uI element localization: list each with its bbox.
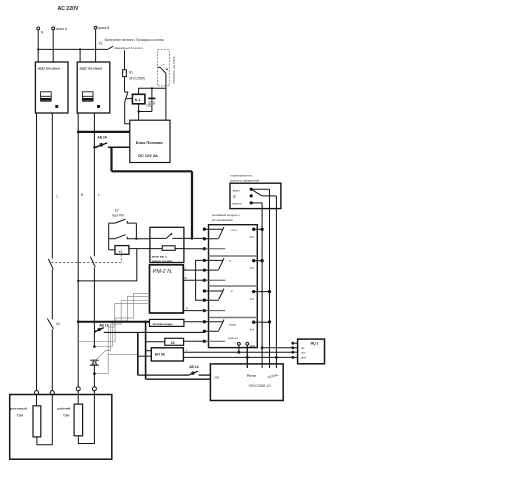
wire K2 right lead to ch4 bot <box>184 340 205 342</box>
svg-text:РМ-2 N.: РМ-2 N. <box>153 269 173 275</box>
svg-text:ТЭН: ТЭН <box>63 413 70 417</box>
heater разгонный ТЭН <box>33 406 41 437</box>
wire K-1 bottom to PSU top <box>139 104 152 120</box>
wire heater1 bottom loop <box>37 395 52 445</box>
svg-text:разгон: разгон <box>228 336 238 340</box>
wire фаза А drop <box>52 30 54 62</box>
svg-text:Аварийный блок вкл.: Аварийный блок вкл. <box>114 46 143 50</box>
module power terminal gnd <box>246 342 255 368</box>
relay coil K1 <box>115 246 129 255</box>
manual mode switch box <box>230 183 281 208</box>
divider ch1/ch2 <box>209 255 258 257</box>
wire V-N x=145.6 <box>145 322 147 380</box>
wire БП5в in1 <box>146 350 152 352</box>
svg-text:ТЭН: ТЭН <box>17 413 24 417</box>
svg-text:S1: S1 <box>99 42 103 46</box>
wire heater2 top <box>77 391 79 404</box>
pin В РМ-2 <box>183 276 204 280</box>
wire S2 right drop <box>135 223 137 239</box>
wire K1 coil left lead <box>109 249 115 251</box>
channel2 contact б <box>203 258 256 282</box>
water valve box клапан воды <box>150 319 184 326</box>
wire K2 left lead <box>146 341 165 343</box>
arrow on N line <box>123 131 127 134</box>
svg-text:R1: R1 <box>129 70 133 74</box>
svg-text:SIGNAL: SIGNAL <box>267 373 279 380</box>
pin MQ-3 do <box>291 346 297 349</box>
wire БП5в in2 <box>138 355 152 357</box>
svg-text:БП 5в: БП 5в <box>155 352 165 356</box>
svg-text:L: L <box>57 195 59 199</box>
wire S2 left drop <box>108 223 110 250</box>
wire АВ2А output to PSU <box>108 146 130 148</box>
wire timer coil row to module ch1 bot <box>184 248 205 250</box>
svg-text:Включение питания / Прожарка к: Включение питания / Прожарка колонны <box>105 38 165 42</box>
node gnd on gnd rail <box>246 356 249 359</box>
wire V2 L1 feeder upper <box>51 113 53 259</box>
wire K1 coil right lead <box>129 248 162 250</box>
svg-text:S2: S2 <box>115 209 119 213</box>
terminal circle L2 <box>92 387 96 391</box>
wire heater2 bottom loop <box>78 391 94 444</box>
svg-text:do: do <box>301 346 305 350</box>
svg-text:VD1: VD1 <box>146 104 152 108</box>
wire In4 to bus2 <box>254 321 270 323</box>
node S2/K1 row merge <box>135 238 137 240</box>
node gnd rail bus3 <box>275 356 278 359</box>
terminal фаза B <box>94 26 110 30</box>
pin MQ-3 vcc <box>291 351 297 354</box>
wire V2 L1 feeder mid <box>51 269 53 319</box>
node triac gate ref <box>93 372 96 375</box>
svg-text:vcc: vcc <box>301 351 306 355</box>
contact K2.1 in L1 <box>47 319 60 329</box>
terminal N <box>37 27 44 35</box>
wire breaker1 N lead <box>37 49 39 62</box>
svg-text:N: N <box>81 193 84 197</box>
wire V-L x=137.8 <box>137 332 139 375</box>
divider ch3/ch4 <box>209 317 258 319</box>
svg-text:выкл: выкл <box>233 188 240 192</box>
dashed link K1 coil to contacts <box>50 254 121 262</box>
bus1 vertical <box>261 203 263 368</box>
wire N horizontal bus <box>38 48 108 50</box>
node do rail bus1 <box>261 346 264 349</box>
svg-text:0: 0 <box>233 194 236 199</box>
svg-text:In2: In2 <box>250 266 255 270</box>
svg-text:-: - <box>186 357 187 361</box>
svg-text:б: б <box>229 259 231 263</box>
module power terminal plus <box>234 340 240 352</box>
breaker QF1 АВДТ 25А <box>35 62 68 113</box>
node 12V drop to relay row <box>191 237 194 240</box>
svg-text:Р: Р <box>186 306 188 310</box>
svg-text:К1: К1 <box>119 250 123 254</box>
svg-text:SSVC0059 1G: SSVC0059 1G <box>249 384 272 388</box>
svg-text:К2: К2 <box>171 341 175 345</box>
svg-text:АВДТ 25А (30мА): АВДТ 25А (30мА) <box>38 67 61 71</box>
thin line C РМ-2 to triac gate <box>96 300 150 360</box>
node K-1 bottom junction <box>137 110 139 112</box>
svg-text:опторазвязкой: опторазвязкой <box>212 218 233 222</box>
thin line D РМ-2 to lower node <box>94 303 149 373</box>
wire thick L drop x=192 <box>191 171 193 238</box>
svg-text:переключатель: переключатель <box>230 173 252 177</box>
thin line A РМ-2 to N2 <box>78 294 149 342</box>
channel1 contact стоп <box>203 227 256 251</box>
svg-text:+: + <box>234 340 236 344</box>
heater рабочий ТЭН <box>74 404 83 436</box>
wire V4 L2 feeder mid <box>93 267 95 346</box>
relay module box <box>209 225 258 348</box>
triac VS1 <box>90 360 99 365</box>
svg-text:gnd: gnd <box>250 344 256 348</box>
wire valve to ch4 top <box>184 321 205 323</box>
relay coil K-1 <box>132 94 145 104</box>
svg-text:Реле: Реле <box>247 373 257 378</box>
node N valve tap on V3 <box>77 320 80 323</box>
svg-text:разгонный: разгонный <box>10 406 27 410</box>
node In2 bus1 <box>260 259 263 262</box>
svg-text:In3: In3 <box>250 297 255 301</box>
wire V3 N2 feeder <box>77 113 79 387</box>
svg-text:реле вр. с: реле вр. с <box>152 254 168 258</box>
svg-text:релейный модуль с: релейный модуль с <box>212 213 240 217</box>
wire V4 L2 feeder upper <box>93 113 95 256</box>
svg-text:MQ 3: MQ 3 <box>311 342 319 346</box>
breaker QF2 АВДТ 25А <box>77 62 110 113</box>
pin MQ-3 gnd <box>291 356 297 359</box>
svg-text:t°: t° <box>163 63 166 67</box>
svg-text:Блок Питания: Блок Питания <box>136 140 163 145</box>
wire do rail <box>262 347 293 349</box>
wire АВ1А to SSR pin1 <box>199 374 211 376</box>
channel4 contact вода <box>203 320 256 343</box>
svg-text:пуск РМ: пуск РМ <box>112 214 124 218</box>
wire gnd rail <box>183 356 292 358</box>
svg-text:АВ 1А: АВ 1А <box>99 324 109 328</box>
wire mid to bus3 <box>262 195 276 197</box>
node N tap on V3 <box>77 131 80 134</box>
diode VD1 <box>146 88 155 111</box>
wire In2 to bus1 <box>254 260 262 262</box>
terminal circle N2 <box>76 387 80 391</box>
wire timer coil right lead <box>175 248 184 250</box>
wire K1 return drop to N2 <box>78 249 137 281</box>
switch АВ 2А <box>95 136 108 149</box>
controller РМ-2 N <box>150 265 184 313</box>
svg-text:АВ 2А: АВ 2А <box>97 136 107 140</box>
channel3 contact Р <box>203 289 256 313</box>
wire фаза B drop <box>95 29 97 62</box>
svg-text:N: N <box>41 31 44 35</box>
switch АВ 1А heater <box>94 324 109 333</box>
svg-text:DC 12V 3A: DC 12V 3A <box>138 153 158 158</box>
relay coil K2 <box>165 338 184 345</box>
bus3 vertical <box>275 196 277 368</box>
switch АВ 1А ssr <box>138 365 200 376</box>
node manual mid <box>250 194 253 197</box>
timer coil <box>162 246 175 251</box>
wire KSD to PSU top <box>165 73 167 120</box>
svg-text:АВ 1А: АВ 1А <box>189 365 199 369</box>
node triac top <box>93 345 96 348</box>
node V-N top <box>144 321 146 323</box>
svg-text:230: 230 <box>214 376 219 380</box>
wire K-1 top to VD1/KSD <box>139 88 166 94</box>
svg-text:К2: К2 <box>56 322 60 326</box>
svg-text:В: В <box>185 276 187 280</box>
divider ch2/ch3 <box>209 285 258 287</box>
svg-text:In1: In1 <box>250 235 255 239</box>
node manual выкл <box>250 188 253 191</box>
svg-text:задер. на вкл: задер. на вкл <box>152 259 172 263</box>
node In3 bus2 <box>268 290 271 293</box>
wire N to SSR pin2 <box>146 378 211 380</box>
svg-text:АС 220V: АС 220V <box>58 6 79 12</box>
wire breaker2 N lead <box>79 49 81 62</box>
svg-text:К-1: К-1 <box>135 97 142 102</box>
terminal circle N1 <box>35 391 39 395</box>
node manual разгон <box>250 201 253 204</box>
wire АВ1А output to ch4 mid <box>94 331 204 333</box>
jumper ch3mid to ch2top <box>196 260 205 300</box>
svg-text:вода: вода <box>229 322 236 326</box>
svg-text:рабочий: рабочий <box>57 406 70 410</box>
svg-text:клапан воды: клапан воды <box>153 322 173 326</box>
timer relay box реле вр <box>150 227 184 262</box>
svg-text:In4: In4 <box>250 327 255 331</box>
thermal switch KSD9700 dashed box <box>158 50 170 86</box>
node N-bus left <box>37 48 39 50</box>
wire 5V rail <box>183 351 292 353</box>
SSR Реле box <box>210 364 283 401</box>
timer contact <box>150 233 184 239</box>
bus2 vertical <box>269 189 271 368</box>
contact K1.1 in L1 <box>48 259 53 269</box>
node VD1 top <box>151 87 153 89</box>
terminal circle L1 <box>50 391 54 395</box>
terminal фаза А <box>52 27 68 31</box>
wire In3 to bus2 <box>254 291 270 293</box>
thin line B РМ-2 to triac node <box>94 297 149 347</box>
svg-text:L: L <box>98 193 100 197</box>
wire thick L drop x=111.5 <box>110 147 112 171</box>
boiler tank box <box>10 395 112 460</box>
thermal contact t <box>158 63 168 73</box>
pin MQ-3 nc <box>291 342 297 345</box>
wire V2 L1 feeder lower <box>51 329 53 390</box>
svg-text:ручного управления: ручного управления <box>230 178 259 182</box>
wire разгон to bus1 <box>251 202 262 204</box>
contact K-1.1 (self hold) <box>125 91 129 101</box>
resistor R1 <box>123 50 145 80</box>
pin 1 РМ-2 <box>183 267 204 271</box>
node N-bus breaker2 tap <box>79 48 81 50</box>
svg-text:gnd: gnd <box>301 355 306 359</box>
wire contact to PSU left <box>125 101 130 124</box>
sensor MQ-3 box <box>298 339 325 364</box>
contact K1.2 in L2 <box>90 257 95 267</box>
svg-text:3К (0,25W): 3К (0,25W) <box>129 77 145 81</box>
wire thick N line to PSU <box>78 131 130 133</box>
svg-text:фаза В: фаза В <box>98 26 110 30</box>
switch S1 <box>99 42 114 49</box>
PSU 5V БП 5в <box>151 348 183 361</box>
svg-text:Р: Р <box>231 290 233 294</box>
svg-text:АВДТ 25А (30мА): АВДТ 25А (30мА) <box>79 67 102 71</box>
wire thick L horizontal y=171.3 <box>112 170 193 172</box>
wire contact to K-1 coil <box>127 98 133 100</box>
svg-text:разгон: разгон <box>232 201 242 205</box>
switch S2 <box>109 219 137 223</box>
wire triac to bottom <box>93 365 95 387</box>
wire N drop <box>37 30 39 50</box>
svg-text:фаза А: фаза А <box>56 27 68 31</box>
wire V1 N1 feeder <box>36 113 38 391</box>
wire N to water valve <box>78 321 149 323</box>
node In1 bus1 <box>260 228 263 231</box>
contact K1 hold <box>109 235 150 239</box>
wire выкл to bus2 <box>251 188 269 190</box>
wire heater1 top <box>36 395 38 406</box>
pin Р РМ-2 <box>183 306 204 310</box>
node plus on 5V rail <box>238 351 241 354</box>
selector blade <box>253 190 262 196</box>
wire timer row to module ch1 mid <box>184 237 205 239</box>
svg-text:стоп: стоп <box>230 228 237 232</box>
node K1 return on V3 <box>77 280 79 282</box>
node АВ2А tap on V4 <box>93 146 95 148</box>
svg-text:KSD9700 (на ТЭН): KSD9700 (на ТЭН) <box>172 57 176 84</box>
wire R1 to contact <box>124 77 126 92</box>
wire In1 to bus1 <box>254 228 262 230</box>
node In4 bus2 <box>268 320 271 323</box>
power supply Блок Питания <box>130 120 170 162</box>
